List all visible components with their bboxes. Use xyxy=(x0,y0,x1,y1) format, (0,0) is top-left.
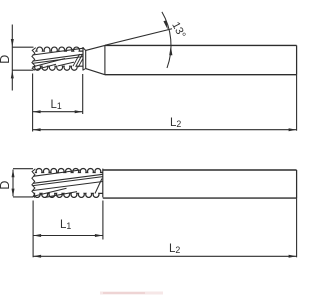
top tool flute line xyxy=(33,57,83,64)
bottom D extension line upper xyxy=(13,168,33,170)
bottom tool shank end vertical xyxy=(296,170,298,198)
bottom tool flute line xyxy=(33,174,103,183)
top tool collar bottom edge xyxy=(83,69,86,71)
bottom tool shank bottom line xyxy=(103,197,297,199)
svg-text:L2: L2 xyxy=(169,243,180,255)
top D arrowhead down xyxy=(11,39,14,47)
13deg arc arrowhead lower xyxy=(169,46,172,56)
bottom tool head end vertical xyxy=(102,169,104,198)
top tool flute line xyxy=(33,48,83,55)
bottom tool thread crest wave lower xyxy=(34,193,103,197)
top D extension line lower xyxy=(12,69,33,71)
top tool collar vertical xyxy=(85,50,87,68)
bottom L2 left arrowhead xyxy=(33,255,41,258)
svg-text:L1: L1 xyxy=(51,99,62,111)
svg-text:L2: L2 xyxy=(170,117,181,129)
svg-text:13°: 13° xyxy=(169,20,187,40)
top L2 left arrowhead xyxy=(33,128,41,131)
bottom tool flute line xyxy=(33,182,103,191)
top L1 right arrowhead xyxy=(75,110,83,113)
bottom tool flute line xyxy=(46,192,78,198)
top tool flute line xyxy=(33,59,66,67)
top tool thread crest wave lower xyxy=(34,66,83,70)
bottom L1 left arrowhead xyxy=(33,234,41,237)
top tool thread crest wave upper xyxy=(35,47,83,51)
top L1 right extension line xyxy=(82,74,84,114)
bottom L2 right arrowhead xyxy=(289,255,297,258)
bottom D arrowhead up xyxy=(12,169,15,177)
top tool taper cone upper edge xyxy=(86,45,105,50)
top L2 dimension line xyxy=(33,129,297,131)
bottom D extension line lower xyxy=(13,196,33,198)
bottom tool flute line xyxy=(33,188,67,196)
13deg dimension arc xyxy=(162,12,171,68)
top L2 right extension line xyxy=(296,75,298,131)
top tool taper cone lower edge xyxy=(86,69,105,75)
svg-text:D: D xyxy=(0,55,12,64)
svg-text:D: D xyxy=(0,181,12,190)
top tool collar top edge xyxy=(83,48,86,51)
bottom D arrowhead down xyxy=(12,189,15,197)
bottom tool flute line xyxy=(33,170,81,176)
top D arrowhead up xyxy=(11,70,14,78)
top tool shank end vertical xyxy=(296,45,298,74)
top L2 right arrowhead xyxy=(289,128,297,131)
top L1 dimension line xyxy=(33,111,83,113)
top tool: dimension D vertical line xyxy=(11,25,13,91)
top tool end hatch marks xyxy=(73,54,80,66)
13deg angled reference line xyxy=(105,29,172,46)
bottom L1/L2 left extension line xyxy=(32,201,34,258)
bottom L2 dimension line xyxy=(33,255,297,257)
bottom L1 right extension line xyxy=(102,201,104,240)
bottom tool thread crest wave upper xyxy=(35,168,103,172)
top tool cone-shank junction vertical xyxy=(104,45,106,74)
bottom L1 dimension line xyxy=(33,235,103,237)
top L1/L2 left extension line xyxy=(32,74,34,132)
top tool shank top line xyxy=(105,44,297,46)
top tool flute line xyxy=(58,62,74,66)
bottom tool shank top line xyxy=(103,169,297,171)
bottom tool: dimension D vertical line xyxy=(12,170,14,197)
bottom tool flute line xyxy=(33,177,103,186)
svg-text:L1: L1 xyxy=(60,219,71,231)
top tool left thread-profile zigzag edge xyxy=(32,48,36,71)
top tool shank bottom line xyxy=(105,74,297,76)
partial red box edge at page bottom xyxy=(100,292,163,295)
top tool flute line xyxy=(37,64,57,69)
top tool head end vertical xyxy=(82,47,84,71)
bottom L1 right arrowhead xyxy=(95,234,103,237)
bottom tool flute line xyxy=(95,179,102,194)
top D extension line upper xyxy=(12,46,33,48)
bottom tool left thread-profile zigzag edge xyxy=(32,169,36,198)
bottom L2 right extension line xyxy=(296,198,298,257)
13deg arc arrowhead upper xyxy=(163,20,167,30)
top L1 left arrowhead xyxy=(33,110,41,113)
top tool flute line xyxy=(33,54,83,61)
